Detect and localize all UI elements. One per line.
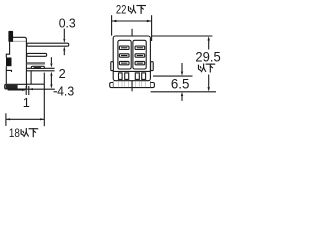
- svg-text:22: 22: [116, 4, 127, 17]
- svg-text:1: 1: [23, 95, 30, 110]
- svg-text:6.5: 6.5: [171, 76, 190, 91]
- svg-text:29.5: 29.5: [195, 49, 220, 65]
- svg-text:4.3: 4.3: [57, 83, 74, 99]
- svg-text:0.3: 0.3: [59, 15, 76, 31]
- svg-text:18: 18: [9, 127, 20, 140]
- svg-text:2: 2: [59, 66, 66, 81]
